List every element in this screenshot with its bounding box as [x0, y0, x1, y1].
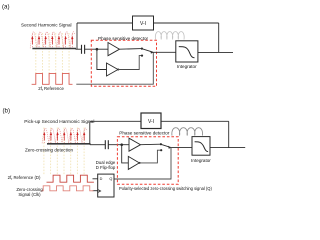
svg-text:Second Harmonic Signal: Second Harmonic Signal: [21, 23, 72, 28]
svg-text:Phase sensitive detector: Phase sensitive detector: [119, 130, 170, 135]
svg-text:V-I: V-I: [140, 21, 146, 27]
svg-text:Q: Q: [109, 177, 112, 181]
svg-text:Integrator: Integrator: [191, 158, 211, 163]
svg-text:Signal (Clk): Signal (Clk): [18, 192, 41, 197]
svg-text:Zero-crossing detection: Zero-crossing detection: [25, 148, 73, 153]
svg-text:Integrator: Integrator: [177, 64, 197, 69]
svg-text:Polarity-selected zero-crossin: Polarity-selected zero-crossing switchin…: [119, 186, 212, 191]
svg-text:(a): (a): [2, 4, 10, 11]
svg-text:D: D: [100, 177, 103, 181]
svg-text:Phase sensitive detector: Phase sensitive detector: [98, 36, 149, 41]
svg-text:Pick-up Second Harmonic Signal: Pick-up Second Harmonic Signal: [24, 119, 94, 125]
svg-text:(b): (b): [3, 108, 11, 115]
svg-text:V-I: V-I: [148, 119, 154, 125]
svg-text:D Flip-flop: D Flip-flop: [96, 165, 116, 170]
